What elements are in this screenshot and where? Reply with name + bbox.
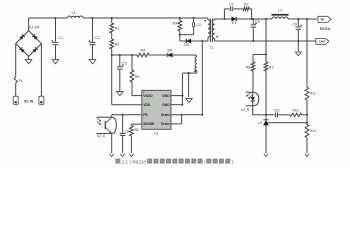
svg-text:U2_B: U2_B — [241, 108, 250, 112]
capacitor C8 — [251, 19, 260, 41]
winding T1 aux — [182, 55, 196, 73]
label AC IN — [24, 100, 34, 104]
svg-text:C2: C2 — [95, 36, 100, 40]
svg-text:R8: R8 — [246, 66, 251, 70]
node clamp — [179, 34, 181, 36]
node T1 primary phase — [204, 20, 206, 22]
svg-text:R7: R7 — [244, 3, 249, 7]
wire U3 ref — [267, 122, 307, 124]
inductor L1 — [68, 10, 84, 18]
wire R1-R2 — [111, 33, 113, 39]
svg-text:SENSE: SENSE — [143, 122, 155, 126]
svg-text:T1: T1 — [209, 46, 213, 50]
ground bridge — [25, 60, 32, 64]
resistor R4 — [137, 48, 149, 57]
svg-text:R10: R10 — [293, 109, 299, 113]
svg-text:R3: R3 — [173, 22, 178, 26]
transformer T1 — [208, 18, 218, 50]
label 5V1A — [320, 26, 331, 31]
wire drain2 — [171, 114, 183, 124]
svg-text:GND: GND — [162, 103, 170, 107]
svg-text:C4: C4 — [196, 23, 201, 27]
node drain join — [201, 114, 203, 116]
ground C1 — [52, 60, 59, 64]
ground R12 — [305, 154, 309, 157]
svg-text:Vo: Vo — [320, 18, 324, 22]
wire FB line — [112, 115, 142, 117]
node snub L — [223, 18, 225, 20]
node ref-divider — [306, 122, 308, 124]
wire drain to primary — [202, 40, 208, 42]
svg-text:L2: L2 — [278, 9, 282, 13]
node R89 split — [265, 53, 267, 55]
wire aux to IC gnd — [181, 73, 183, 105]
svg-text:CR6228: CR6228 — [129, 159, 146, 164]
resistor R9 — [264, 55, 273, 115]
ground R6 — [129, 154, 133, 157]
node U3 cathode — [265, 114, 267, 116]
wire snubber — [224, 9, 251, 19]
capacitor C5 — [117, 55, 127, 91]
svg-text:2.1: 2.1 — [122, 159, 129, 164]
node R89 top — [265, 18, 267, 20]
node C9 gnd — [297, 40, 299, 42]
svg-text:VSDO: VSDO — [143, 94, 153, 98]
svg-text:R2: R2 — [115, 43, 120, 47]
node FB-C6 — [122, 114, 124, 116]
svg-text:C1: C1 — [58, 36, 63, 40]
ground C5 — [117, 91, 124, 95]
caption figure title — [116, 159, 234, 165]
wire gnd pins — [171, 96, 182, 105]
node VDD-C5 — [119, 54, 121, 56]
wire divider top — [306, 19, 308, 87]
node aux phase dot — [194, 70, 196, 72]
capacitor C7 — [229, 3, 234, 12]
node bus-C2 — [91, 17, 93, 19]
svg-text:R1: R1 — [115, 27, 120, 31]
connector GND out — [316, 38, 329, 44]
svg-text:U3: U3 — [258, 121, 262, 125]
wire sec gnd rail — [215, 40, 316, 42]
svg-text:D1-D4: D1-D4 — [29, 25, 40, 29]
svg-text:R6: R6 — [134, 128, 138, 132]
svg-text:AC IN: AC IN — [24, 100, 34, 104]
resistor R3 — [173, 18, 182, 35]
node bus-R3 — [179, 17, 181, 19]
resistor R1 — [110, 18, 120, 33]
resistor R6 — [130, 124, 142, 153]
node C8 bottom — [252, 40, 254, 42]
fuse F1 — [14, 77, 23, 83]
ground C9 — [295, 52, 301, 56]
capacitor C10 — [273, 109, 279, 118]
resistor R7 — [243, 3, 250, 11]
svg-text:Drain: Drain — [161, 122, 169, 126]
wire VDD to pin — [112, 55, 142, 105]
svg-text:FB: FB — [143, 113, 148, 117]
node VDD junction — [111, 54, 113, 56]
svg-text:C7: C7 — [229, 3, 234, 7]
resistor R10 — [290, 109, 302, 117]
node comp-divider — [306, 114, 308, 116]
capacitor C9 — [292, 19, 302, 52]
diode D5 — [184, 39, 202, 47]
resistor R12 — [305, 125, 316, 138]
svg-text:C5: C5 — [122, 62, 127, 66]
node C9 top — [297, 18, 299, 20]
wire drain1 — [171, 114, 202, 116]
ground U3 — [264, 154, 268, 157]
diode D7 — [232, 17, 237, 25]
wire fuse to terminal — [15, 83, 17, 101]
wire drain vertical — [201, 41, 203, 115]
node bus-R1 — [111, 17, 113, 19]
node C8 top — [252, 18, 254, 20]
resistor R8 — [246, 55, 255, 93]
capacitor C2 — [88, 18, 100, 60]
wire VDD rail — [112, 54, 168, 56]
shunt regulator U3 — [258, 115, 269, 153]
node bus-C4 — [193, 17, 195, 19]
svg-text:C9: C9 — [292, 22, 297, 26]
node snub R — [251, 18, 253, 20]
diode D6 — [168, 48, 196, 57]
svg-text:U2_A: U2_A — [97, 134, 106, 138]
wire clamp to D5 — [180, 35, 186, 41]
wire divider mid — [306, 100, 308, 125]
capacitor C4 — [193, 18, 201, 35]
connector AC terminal N — [39, 96, 44, 104]
op-amp U1 PWM controller — [142, 90, 171, 129]
svg-text:VDD: VDD — [143, 103, 151, 107]
ground C6 — [120, 154, 124, 157]
node T1 secondary phase — [216, 36, 218, 38]
label U2_B — [241, 108, 250, 112]
svg-text:L1: L1 — [72, 10, 76, 15]
node drain-D5 — [201, 40, 203, 42]
label U2_A — [97, 134, 106, 138]
svg-text:Drain: Drain — [161, 113, 169, 117]
wire clamp bottom — [180, 34, 194, 36]
label U1 — [154, 131, 159, 135]
wire bridge bottom — [28, 56, 30, 59]
wire sec + rail — [218, 18, 317, 20]
inductor L2 — [271, 9, 288, 19]
svg-text:F1: F1 — [19, 79, 23, 83]
node divider top — [306, 18, 308, 20]
wire bridge right to terminal — [40, 44, 42, 101]
svg-text:GND: GND — [162, 94, 170, 98]
resistor R2 — [110, 39, 120, 55]
wire aux gnd — [188, 73, 190, 97]
wire top DC bus — [29, 17, 208, 19]
wire bridge top to bus — [28, 18, 30, 31]
ground U2_A — [110, 154, 114, 157]
svg-text:R12: R12 — [310, 129, 316, 133]
opto U2_B LED — [246, 92, 259, 106]
node aux return — [188, 72, 190, 74]
svg-text:R9: R9 — [269, 66, 274, 70]
wire LED to lineA — [253, 106, 266, 115]
svg-text:D7: D7 — [232, 21, 237, 25]
svg-text:R5: R5 — [135, 75, 140, 79]
capacitor C6 — [120, 115, 129, 153]
capacitor C1 — [51, 18, 63, 60]
svg-text:R11: R11 — [310, 92, 316, 96]
svg-text:GND: GND — [319, 40, 325, 44]
svg-text:C6: C6 — [125, 130, 129, 134]
svg-text:C8: C8 — [255, 20, 260, 24]
svg-text:D5: D5 — [184, 43, 189, 47]
node VDD-R5 — [131, 54, 133, 56]
svg-text:U1: U1 — [154, 131, 159, 135]
wire divider bottom — [306, 138, 308, 154]
resistor R5 — [130, 55, 142, 96]
connector AC terminal L — [13, 96, 18, 104]
ground aux — [186, 98, 193, 102]
resistor R11 — [305, 87, 316, 100]
node gnd pin1 — [181, 95, 183, 106]
svg-text:D6: D6 — [168, 48, 173, 52]
svg-text:C10: C10 — [273, 109, 279, 113]
wire bridge left to fuse — [15, 44, 17, 77]
connector Vo — [318, 16, 331, 22]
node bus-C1 — [54, 17, 56, 19]
svg-text:R4: R4 — [141, 48, 146, 52]
wire emitter gnd — [111, 134, 113, 154]
bridge rectifier D1-D4 — [16, 25, 42, 56]
ground C2 — [89, 60, 96, 64]
svg-text:5V/1A: 5V/1A — [320, 26, 331, 31]
wire R89 feed — [253, 19, 266, 55]
opto U2_A transistor — [97, 117, 117, 133]
wire comp line — [266, 114, 307, 116]
